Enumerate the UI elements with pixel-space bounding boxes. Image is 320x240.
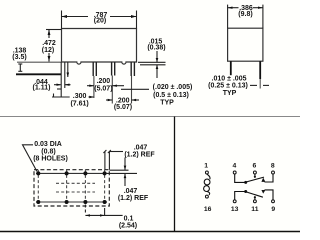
svg-text:6: 6 <box>253 163 257 170</box>
svg-text:.472: .472 <box>42 40 56 47</box>
svg-text:8: 8 <box>271 163 275 170</box>
svg-text:(5.07): (5.07) <box>114 104 132 111</box>
svg-text:.200: .200 <box>97 78 111 85</box>
svg-text:(2.54): (2.54) <box>119 223 137 230</box>
svg-text:(0.25 ± 0.13): (0.25 ± 0.13) <box>208 83 248 90</box>
svg-text:.047: .047 <box>134 145 148 152</box>
svg-text:(0.38): (0.38) <box>147 45 165 52</box>
svg-text:(8 HOLES): (8 HOLES) <box>33 156 68 163</box>
svg-text:(3.5): (3.5) <box>12 54 26 61</box>
svg-text:(.020 ± .005): (.020 ± .005) <box>153 84 193 91</box>
svg-text:(0.5 ± 0.13): (0.5 ± 0.13) <box>153 92 189 99</box>
svg-text:0.03 DIA: 0.03 DIA <box>34 141 62 148</box>
svg-text:(12): (12) <box>42 47 54 54</box>
svg-text:(1.2) REF: (1.2) REF <box>118 195 149 202</box>
svg-text:TYP: TYP <box>160 100 174 107</box>
svg-text:16: 16 <box>204 206 212 213</box>
svg-text:4: 4 <box>233 163 237 170</box>
svg-text:TYP: TYP <box>223 90 237 97</box>
svg-text:13: 13 <box>231 206 239 213</box>
svg-text:.300: .300 <box>73 93 87 100</box>
svg-text:(5.07): (5.07) <box>94 86 112 93</box>
svg-text:1: 1 <box>204 163 208 170</box>
svg-text:(20): (20) <box>94 18 106 25</box>
svg-text:9: 9 <box>271 206 275 213</box>
svg-text:(0.8): (0.8) <box>41 149 55 156</box>
svg-text:(9.8): (9.8) <box>238 11 252 18</box>
svg-text:(7.61): (7.61) <box>70 101 88 108</box>
svg-text:0.1: 0.1 <box>124 216 134 223</box>
svg-text:(1.11): (1.11) <box>33 85 51 92</box>
svg-text:(1.2) REF: (1.2) REF <box>124 152 155 159</box>
svg-text:11: 11 <box>251 206 258 213</box>
svg-text:.010 ± .005: .010 ± .005 <box>212 76 247 83</box>
